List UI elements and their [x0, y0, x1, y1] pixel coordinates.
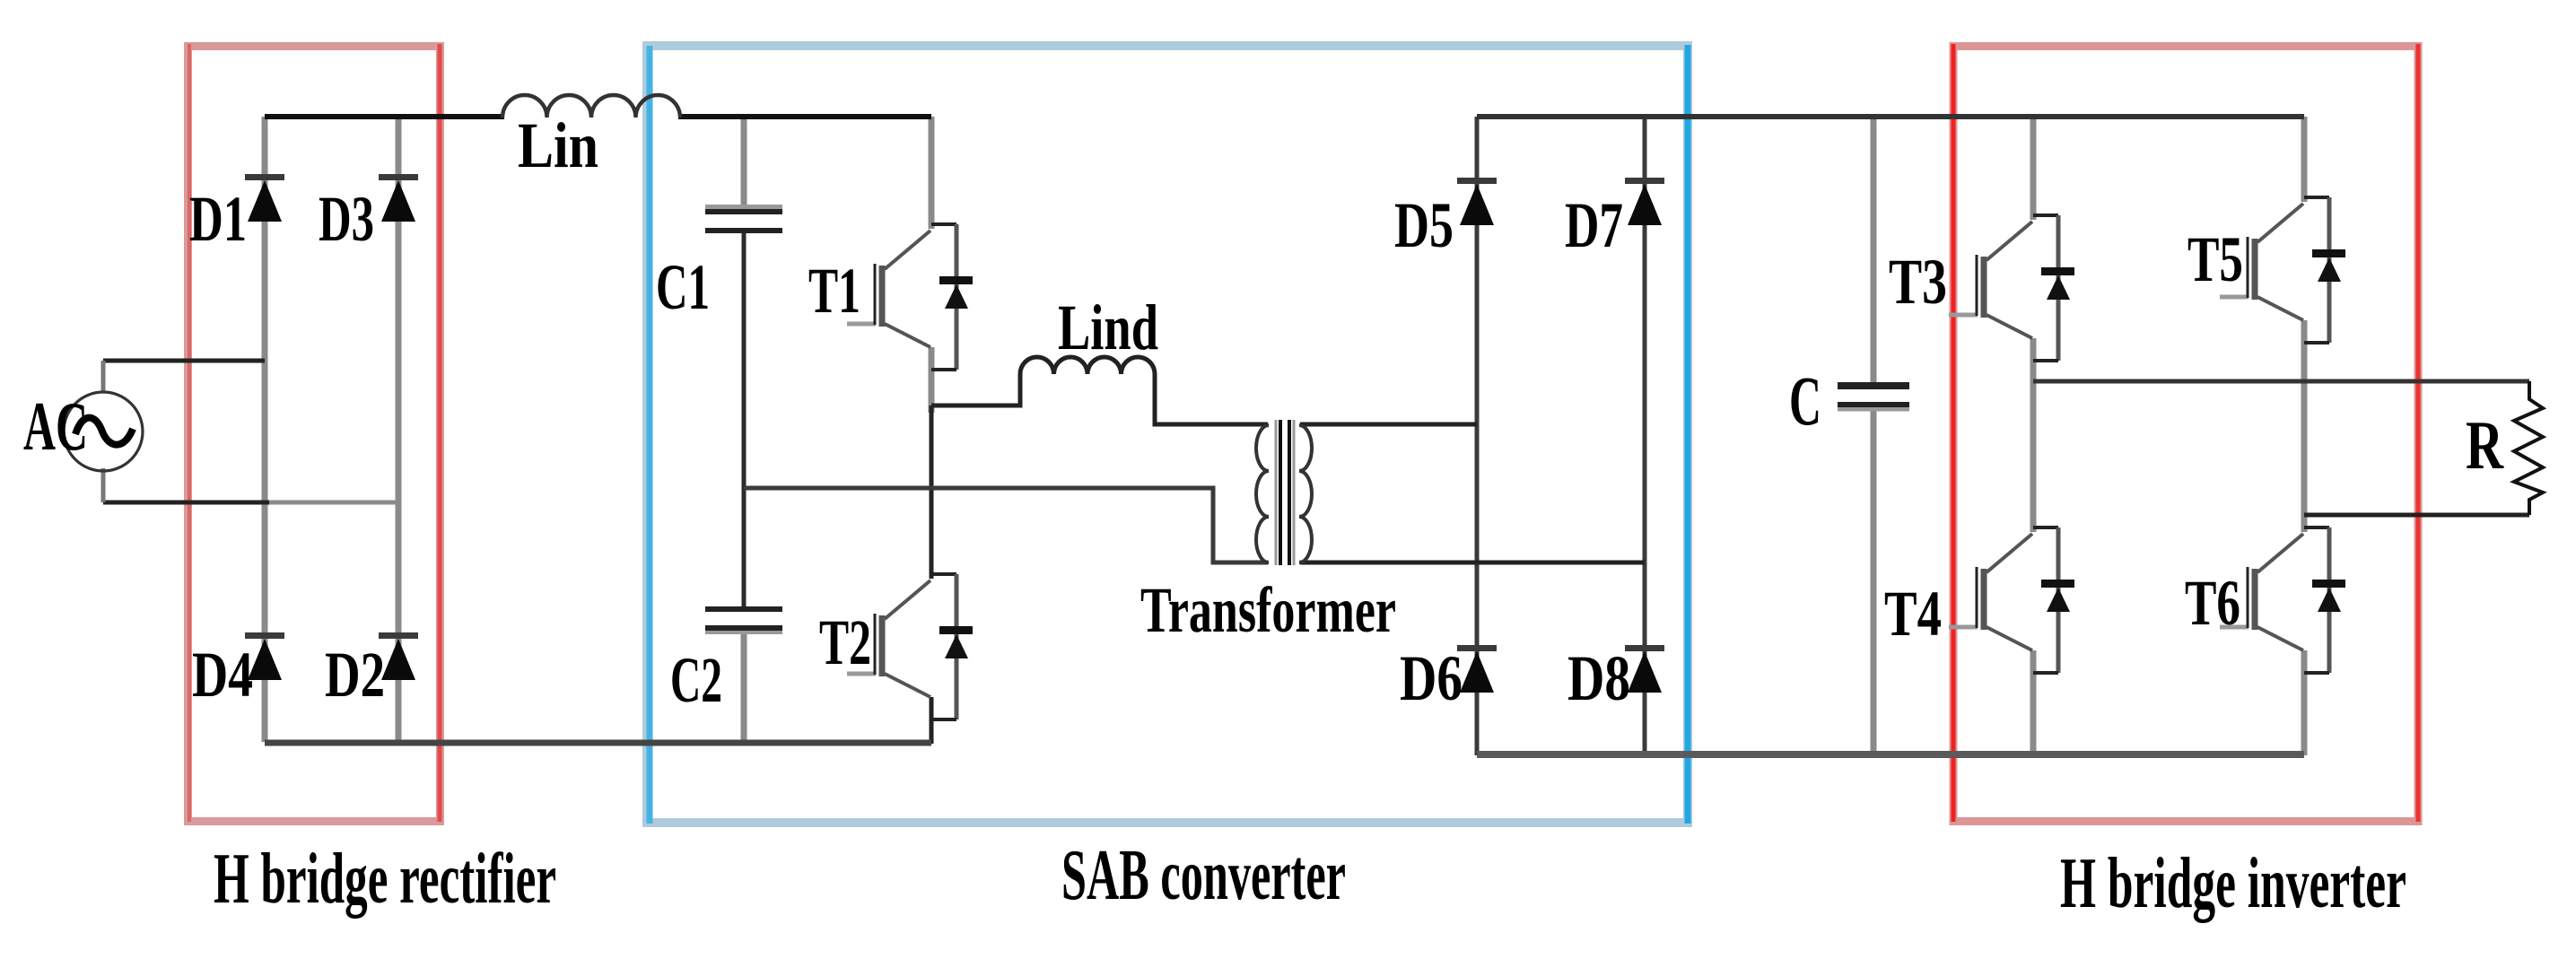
svg-text:T3: T3	[1889, 246, 1947, 318]
svg-text:T6: T6	[2185, 567, 2240, 639]
svg-text:H bridge inverter: H bridge inverter	[2060, 844, 2406, 923]
svg-text:SAB converter: SAB converter	[1061, 836, 1346, 915]
svg-text:C2: C2	[670, 644, 722, 716]
svg-text:D5: D5	[1394, 189, 1454, 261]
svg-text:T5: T5	[2187, 223, 2243, 295]
svg-text:D8: D8	[1567, 642, 1630, 714]
svg-text:T4: T4	[1884, 578, 1942, 650]
svg-text:D2: D2	[325, 639, 385, 711]
svg-text:Lin: Lin	[518, 109, 598, 181]
svg-text:T1: T1	[808, 255, 860, 327]
svg-text:D1: D1	[189, 183, 247, 255]
svg-text:D4: D4	[192, 639, 253, 711]
svg-text:Lind: Lind	[1058, 292, 1158, 363]
svg-text:T2: T2	[819, 606, 871, 678]
svg-text:R: R	[2466, 406, 2504, 484]
svg-text:D3: D3	[319, 183, 374, 255]
svg-text:AC: AC	[23, 388, 88, 465]
svg-text:D6: D6	[1400, 642, 1463, 714]
svg-text:D7: D7	[1565, 189, 1623, 261]
svg-text:C: C	[1789, 362, 1821, 440]
svg-text:H bridge rectifier: H bridge rectifier	[214, 840, 556, 919]
svg-text:C1: C1	[656, 251, 710, 323]
svg-text:Transformer: Transformer	[1140, 574, 1396, 646]
